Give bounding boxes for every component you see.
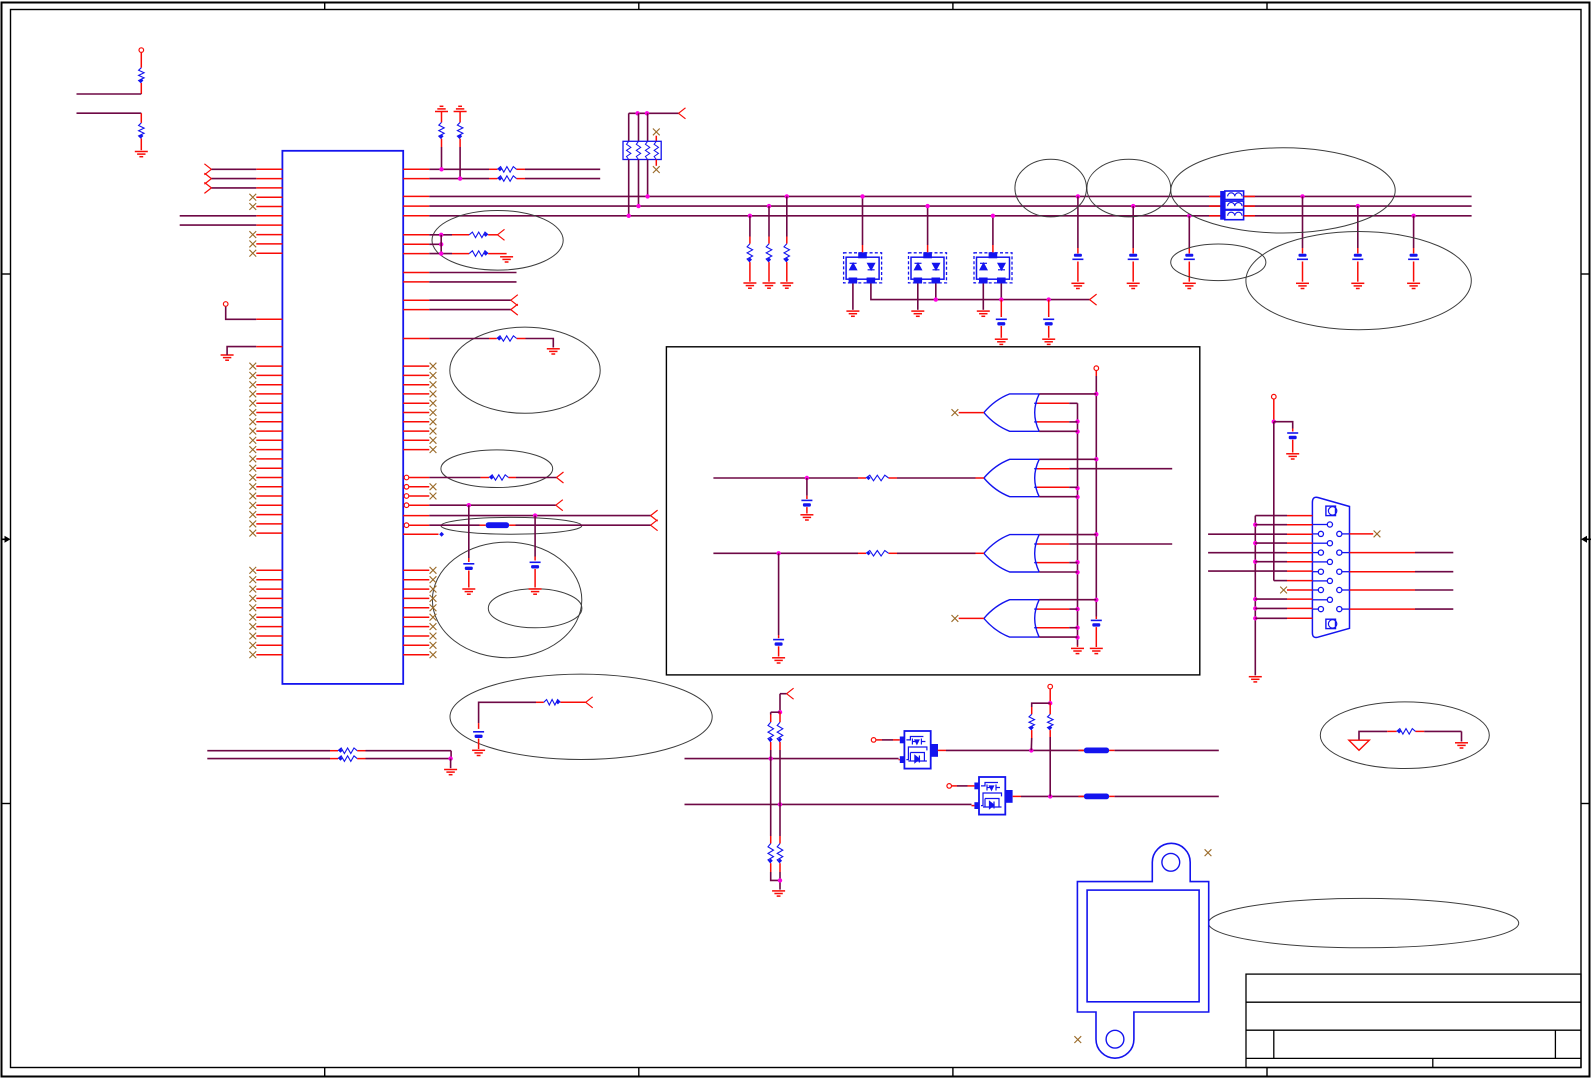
power bar above VR3 <box>435 106 448 111</box>
Q1 gate port <box>871 738 876 743</box>
analog ground triangle <box>1349 740 1369 750</box>
annotation ellipse E6 <box>432 211 563 271</box>
capacitor C8 on suppressor rail <box>1047 297 1051 301</box>
capacitor C12 on power rail <box>1095 617 1097 620</box>
U1 right pin row 11 wire open end <box>403 299 429 301</box>
resistor RV14 <box>779 836 781 844</box>
Q2 gate port <box>947 784 952 789</box>
G4 output no-connect <box>952 615 959 622</box>
U1 right dot-pin row resistor RH6 to open end <box>404 475 409 480</box>
ground below C14 <box>772 658 785 663</box>
ground below D1 <box>852 284 854 310</box>
annotation ellipse E13 <box>1320 702 1489 769</box>
gate power rail <box>1095 376 1097 617</box>
RC net wire in E12 <box>479 702 536 723</box>
annotation ellipse E5 <box>1246 232 1471 330</box>
annotation ellipse E10 <box>432 542 581 658</box>
ground below R2 <box>135 152 148 157</box>
wire LL1 with resistor RH8 <box>207 750 330 752</box>
connector power port P5 <box>1272 394 1277 399</box>
choke pin stubs <box>1209 196 1255 215</box>
ground below rail <box>1249 677 1262 682</box>
annotation ellipse E9 <box>441 517 582 534</box>
title block <box>1246 974 1581 1067</box>
resistor VR3 <box>441 112 443 123</box>
Q1 drain wire <box>938 749 946 751</box>
G2 input lower wire <box>1069 486 1077 488</box>
U1 left no-connect pins 4-5 <box>256 196 282 198</box>
U1 left long wires pins 6-7 <box>256 215 282 217</box>
bus capacitors C1-C6 <box>1076 194 1080 198</box>
bus wire net B (row 2) <box>403 205 429 207</box>
capacitor C7 on suppressor rail <box>1000 300 1002 317</box>
wire to R2 <box>77 112 142 114</box>
G2 input upper long wire <box>1069 468 1172 470</box>
annotation ellipse E14 <box>1209 898 1519 947</box>
capacitor C11 <box>478 723 480 729</box>
U1 left no-connect block A (19 pins) <box>256 365 282 367</box>
capacitor C15 <box>1274 422 1293 429</box>
LL1 corner down to LL2 junction and ground <box>450 751 452 759</box>
J1 right no-connect wire <box>1350 533 1374 535</box>
U1 right dot-pin row with cap branch to open end <box>404 503 409 508</box>
U1 right stub pin with marker <box>403 533 438 535</box>
U1 right pin row 10 wire <box>403 281 429 283</box>
power port P2 to U1 left pin 11 <box>223 302 228 307</box>
annotation ellipse E3 <box>1171 148 1395 233</box>
ground to U1 left pin 12 <box>221 355 234 360</box>
net N2 into G3 with resistor RH12 <box>713 552 858 554</box>
transient suppressor D3 <box>974 253 1012 283</box>
J1 left wires from rail <box>1255 524 1287 526</box>
ground below C11 <box>472 750 485 755</box>
U1 right no-connect block A (10 pins) <box>403 365 429 367</box>
U1 right pin row with cap branch to open end <box>403 515 429 517</box>
no-connect above RN1 pin 4 <box>653 129 660 136</box>
bracket no-connect bottom <box>1074 1036 1081 1043</box>
G1 output no-connect <box>952 409 959 416</box>
or-gate G2 <box>984 459 1039 496</box>
resistor R2 <box>140 113 142 123</box>
net N1 into G2 with resistor RH11 <box>713 477 858 479</box>
U1 right pin row 2 wire with series resistor RH2 <box>403 178 429 180</box>
drive power port P4 <box>1048 684 1053 689</box>
U1 left pins rows 1-3 with open-end markers <box>256 168 282 170</box>
G1 input wires <box>1069 402 1077 404</box>
or-gate G3 <box>984 535 1039 572</box>
gate drive bus row 2 <box>685 803 972 805</box>
bracket no-connect top <box>1205 849 1212 856</box>
J1 right outgoing wires <box>1350 552 1416 554</box>
ground below D3 <box>982 284 984 310</box>
ground below rails <box>772 891 785 896</box>
mosfet Q1 <box>904 731 930 769</box>
or-gate G4 <box>984 600 1039 637</box>
resistor RH7 <box>544 700 561 706</box>
wire LL2 with resistor RH9 <box>207 758 330 760</box>
ground below C12 <box>1090 648 1103 653</box>
annotation ellipse E2 <box>1087 159 1171 217</box>
U1 right pin row 6 resistor RH3 to open end <box>403 234 429 236</box>
J1 polarizing squares <box>1326 506 1336 515</box>
U1 right pin row 12 wire open end <box>403 309 429 311</box>
resistor RV11 <box>770 712 772 714</box>
U1 left no-connect pins 8-10 <box>256 234 282 236</box>
wire top with open end marker <box>629 112 679 114</box>
ground below C15 <box>1286 454 1299 459</box>
annotation ellipse E4 <box>1171 244 1266 281</box>
resistor RV15 <box>1032 703 1051 707</box>
gate power port P3 <box>1094 366 1099 371</box>
J1 left no-connect <box>1280 587 1287 594</box>
RN1 wires down to bus <box>628 160 630 216</box>
DB15 connector J1 body <box>1312 497 1349 637</box>
left centre arrow <box>1 536 11 543</box>
resistor RV13 <box>770 836 772 844</box>
ground below C13 <box>800 515 813 520</box>
annotation ellipse E1 <box>1015 159 1087 217</box>
power port P1 <box>139 48 144 53</box>
transient suppressor D2 <box>909 253 947 283</box>
D1 output wire <box>871 284 1090 300</box>
Q2 drain wire <box>1013 795 1021 797</box>
gate drive bus row 1 <box>685 758 899 760</box>
vertical wires into resistor pack RN1 <box>628 113 630 141</box>
wire to R1 <box>77 93 142 95</box>
capacitor C10 branch <box>534 516 536 557</box>
G3 input lower wire <box>1069 562 1077 564</box>
G4 input wires <box>1069 608 1077 610</box>
rail continuation down <box>770 750 772 759</box>
U1 right dot-pin no-connect 2 <box>404 494 409 499</box>
annotation ellipse E11 <box>488 589 582 628</box>
J1 left pin stubs <box>1287 516 1312 619</box>
pulldown resistors RV5-RV7 on bus <box>748 214 752 218</box>
rail top corner to first pin <box>1255 515 1287 517</box>
logic detail box <box>666 347 1199 675</box>
right centre arrow <box>1581 536 1591 543</box>
J1 incoming signal wires <box>1208 533 1287 535</box>
U1 right pin row 13 resistor RH5 to ground <box>403 338 429 340</box>
annotation ellipse E8 <box>441 450 553 488</box>
common-mode choke FB1 <box>1220 191 1225 220</box>
termination net in E13 with resistor RH10 <box>1359 731 1387 740</box>
ferrite bead FB3 <box>1078 749 1084 751</box>
bus wire net C (row 3) <box>403 215 429 217</box>
bracket inner square <box>1087 890 1199 1002</box>
U1 right no-connect block B (10 pins) <box>403 569 429 571</box>
power bar above VR4 <box>454 106 467 111</box>
capacitor C9 branch <box>468 505 470 558</box>
J1 pin circles <box>1312 522 1349 612</box>
open end marker top <box>780 693 787 695</box>
bus wire net A (row 1) <box>403 195 429 197</box>
gate common rail <box>1077 403 1079 645</box>
U1 right pin row 1 wire with series resistor RH1 <box>403 168 429 170</box>
bracket hole top <box>1162 853 1180 871</box>
tie wire rows 6-8 <box>440 235 442 254</box>
capacitor C13 on net N1 <box>806 478 808 496</box>
resistor VR4 <box>459 112 461 123</box>
U1 right pin row 7 <box>403 243 429 245</box>
U1 left no-connect block B (10 pins) <box>256 569 282 571</box>
U1 right dot-pin no-connect <box>404 485 409 490</box>
ground below gate rail <box>1071 648 1084 653</box>
resistor RV16 <box>1049 703 1051 714</box>
resistor RV12 <box>779 712 781 722</box>
power rail to connector <box>1273 422 1275 581</box>
D3 output wire joins <box>1000 284 1002 300</box>
mosfet Q2 <box>979 777 1005 815</box>
annotation ellipse E7 <box>450 327 600 413</box>
transient suppressor D1 <box>844 253 882 283</box>
mounting bracket outline <box>1077 843 1208 1058</box>
IC U1 body <box>282 151 403 684</box>
ground right of RH10 <box>1461 731 1463 741</box>
connector ground rail <box>1254 516 1256 676</box>
U1 right pin row 9 wire <box>403 272 429 274</box>
ferrite bead FB4 <box>1078 795 1084 797</box>
U1 right dot-pin row ferrite bead FB2 to open end <box>404 523 409 528</box>
rails join to ground <box>771 872 780 880</box>
Q1 source stub <box>899 759 900 761</box>
bracket hole bottom <box>1106 1030 1124 1048</box>
ground below D2 <box>917 284 919 310</box>
resistor R1 <box>140 53 142 68</box>
Q2 source stub <box>972 805 975 807</box>
capacitor C14 on net N2 <box>778 553 780 635</box>
or-gate G1 <box>984 394 1039 431</box>
U1 right pin row 8 resistor RH4 to ground <box>403 253 429 255</box>
resistor pack RN1 <box>623 141 661 159</box>
no-connect below RN1 pin 4 <box>655 160 657 166</box>
G3 input upper long wire <box>1069 543 1172 545</box>
annotation ellipse E12 <box>450 674 712 759</box>
D2 output wire joins <box>935 284 937 300</box>
